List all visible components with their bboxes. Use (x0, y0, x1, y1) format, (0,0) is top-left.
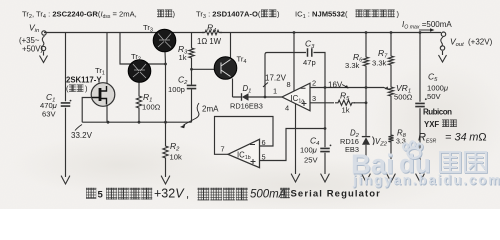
node R2 junction (164, 121, 167, 124)
svg-text:Tr2, Tr4 : 2SC2240-GR(Idss = 2: Tr2, Tr4 : 2SC2240-GR(Idss = 2mA, (22, 10, 137, 20)
svg-text:2: 2 (312, 79, 316, 88)
ground arrow (VR1 branch) (387, 174, 395, 182)
wire Tr4 base (192, 68, 215, 70)
zener D2 (362, 136, 370, 138)
wire Tr4 collector (230, 33, 232, 59)
wire Tr2 collector from rail (120, 33, 166, 65)
wire pin5 to reference node (260, 129, 326, 161)
svg-text:RD16EB3: RD16EB3 (230, 102, 263, 111)
input terminal Vin (42, 31, 46, 35)
svg-text:2mA: 2mA (202, 105, 219, 114)
diode D1 (241, 93, 243, 101)
svg-text:100μ: 100μ (300, 146, 318, 155)
wire Tr1 source (106, 106, 108, 123)
svg-text:25V: 25V (304, 156, 318, 165)
svg-text:5: 5 (262, 153, 266, 162)
svg-text:Tr3 : 2SD1407A-O(: Tr3 : 2SD1407A-O( (196, 10, 261, 20)
resistor R6 (363, 53, 368, 70)
svg-text:1k: 1k (342, 106, 350, 115)
wire Tr1 gate loop (82, 98, 92, 123)
resistor R7 (388, 52, 393, 69)
ground arrow (R2) (161, 176, 169, 184)
op-amp IC1b (228, 139, 260, 167)
transistor Tr1 (2SK117 JFET) (91, 83, 115, 107)
svg-text:8: 8 (287, 80, 291, 89)
wire R3 branch from rail (191, 33, 193, 45)
resistor R5 (335, 100, 355, 105)
svg-text:3: 3 (312, 94, 316, 103)
resistor R2 (165, 122, 167, 142)
transistor Tr3 (153, 29, 176, 52)
svg-text:47p: 47p (303, 58, 316, 67)
resistor R3 (189, 44, 194, 62)
svg-text:,: , (186, 189, 189, 201)
annotation 2mA with leader (184, 103, 200, 125)
wire pin3 (non-inverting input) (310, 102, 366, 104)
transistor Tr4 (214, 57, 237, 80)
ground arrow (C5) (416, 174, 424, 182)
svg-text:100p: 100p (168, 85, 185, 94)
capacitor C1 (61, 103, 71, 106)
wire sense bus (0-V line) (82, 121, 191, 123)
wire Tr3 emitter (164, 52, 167, 123)
svg-text:1: 1 (273, 87, 277, 96)
svg-text:+32V: +32V (154, 187, 185, 201)
svg-text:33.2V: 33.2V (71, 131, 93, 140)
wire R7/VR1/R8 branch (390, 33, 392, 175)
wire pin4 V- drop (295, 104, 297, 174)
watermark Baidu Jingyan logo (351, 141, 500, 188)
wiper arrow into VR1 (384, 88, 389, 90)
output return arrow (442, 51, 444, 55)
wire C1 branch (65, 33, 67, 178)
wire R6 branch (365, 33, 367, 175)
potentiometer VR1 (388, 83, 393, 100)
svg-text:5: 5 (98, 190, 104, 201)
svg-text:10k: 10k (170, 153, 182, 162)
input return arrow (43, 52, 45, 56)
wire C4 branch (324, 88, 326, 175)
capacitor C3 (308, 48, 312, 56)
node R1 junction (138, 121, 141, 124)
svg-text:100Ω: 100Ω (142, 103, 161, 112)
svg-text:17.2V: 17.2V (265, 74, 287, 83)
node Tr3 emitter/Tr2 junction (164, 63, 167, 66)
svg-text:500Ω: 500Ω (394, 93, 413, 102)
svg-text:Serial Regulator: Serial Regulator (291, 189, 381, 200)
node output/C3 leg (264, 96, 267, 99)
wire Tr4 emitter (232, 79, 234, 98)
svg-text:Rubicon: Rubicon (423, 108, 452, 117)
watermark paw (404, 142, 423, 159)
svg-text:1k: 1k (179, 53, 187, 62)
svg-text:1Ω 1W: 1Ω 1W (197, 37, 222, 46)
wire C5 branch (419, 33, 421, 175)
svg-text:4: 4 (285, 104, 289, 113)
wire C3 feedback loop (265, 53, 325, 98)
resistor R1 (136, 92, 141, 112)
wire pin7 feedback loop to pin6 (215, 117, 274, 155)
capacitor C4 (320, 148, 330, 151)
ground arrow (C4) (321, 174, 329, 182)
svg-text:+50V): +50V) (22, 45, 43, 54)
op-amp IC1a (282, 83, 310, 111)
resistor R8 (388, 131, 393, 146)
svg-text:16V: 16V (328, 80, 343, 89)
ground arrow (D2) (362, 174, 370, 182)
svg-text:7: 7 (221, 145, 225, 154)
svg-text:6: 6 (262, 138, 266, 147)
annotation VZ2 (373, 137, 375, 146)
wire D1 to op-amp output (233, 96, 283, 98)
wire V+ riser pin8 (293, 33, 295, 92)
resistor R4 (202, 30, 222, 34)
watermark jingyan characters (441, 153, 487, 173)
wire Tr1 drain (106, 33, 108, 85)
svg-text:50V: 50V (427, 92, 441, 101)
svg-text:YXF: YXF (424, 120, 439, 129)
ground arrow (C1) (61, 176, 69, 184)
svg-text:3.3k: 3.3k (372, 59, 387, 68)
capacitor C5 (415, 103, 425, 106)
svg-text:=34mΩ: =34mΩ (445, 132, 487, 144)
transistor Tr2 (128, 60, 151, 83)
ground arrow (pin4) (291, 174, 299, 182)
node Tr1 source junction (107, 121, 110, 124)
svg-text:jingyan.baidu.com: jingyan.baidu.com (352, 173, 500, 188)
svg-text:(+32V): (+32V) (468, 38, 493, 47)
capacitor C2 (187, 85, 197, 88)
top supply rail (44, 32, 441, 34)
svg-text:3.3k: 3.3k (345, 61, 360, 70)
caption: Fig.5 output voltage +32V, output current 500mA Serial Regulator (86, 188, 96, 199)
wire pin2 (inverting input, 16V node) (310, 87, 384, 89)
svg-text:63V: 63V (42, 110, 56, 119)
output terminal Vout (441, 32, 445, 36)
wire Tr2 emitter to R1 (138, 82, 140, 92)
